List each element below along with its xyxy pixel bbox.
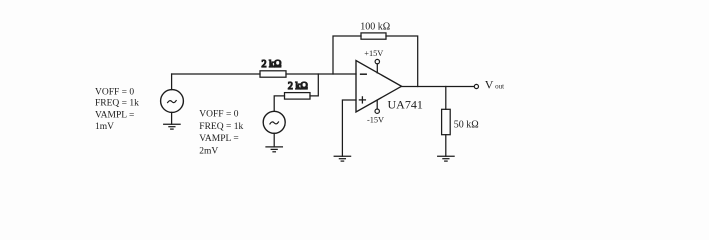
power pin V+ [375,59,379,73]
wire R2 right to junction on inverting input [310,74,318,96]
wire V1 to ground stem [171,112,173,124]
ground below V1 [164,124,180,129]
node Vout terminal [474,84,478,88]
power pin V- [375,100,379,113]
svg-text:+15V: +15V [364,49,383,58]
AC source V1 [161,90,184,113]
wire feedback left [333,36,361,74]
svg-text:V: V [485,78,494,92]
svg-text:2mV: 2mV [199,146,218,156]
op-amp inverting input minus sign [361,73,367,75]
resistor R2 [285,93,311,100]
svg-text:1mV: 1mV [95,122,114,132]
wire non-inverting input to ground [342,100,356,156]
resistor R3 [361,33,386,39]
svg-text:2 kΩ: 2 kΩ [288,81,308,92]
svg-text:100 kΩ: 100 kΩ [360,21,390,32]
svg-text:VAMPL =: VAMPL = [95,111,134,121]
wire R4 to ground stem [445,135,447,157]
ground below R4 [438,156,454,161]
svg-text:-15V: -15V [367,116,384,125]
wire op-amp output to Vout [402,86,475,88]
svg-text:VOFF = 0: VOFF = 0 [199,110,238,120]
wire output to R4 [445,87,447,110]
svg-text:FREQ = 1k: FREQ = 1k [95,98,139,108]
svg-text:2 kΩ: 2 kΩ [262,59,282,70]
ground below V2 [266,147,282,152]
AC source V2 [263,111,285,133]
resistor R1 [260,71,286,77]
svg-text:VAMPL =: VAMPL = [199,134,238,144]
svg-text:UA741: UA741 [388,97,423,111]
op-amp non-inverting input plus sign [359,97,365,103]
svg-text:FREQ = 1k: FREQ = 1k [199,122,243,132]
resistor R4 [442,109,451,134]
op-amp U1 triangle [356,61,402,113]
svg-text:VOFF = 0: VOFF = 0 [95,88,134,98]
wire R1 to op-amp inverting input [286,73,356,75]
wire V2 to ground stem [273,133,275,147]
wire feedback right [386,36,418,87]
svg-text:50 kΩ: 50 kΩ [454,119,479,130]
wire V1 to R1 [172,73,260,75]
ground at non-inverting input [334,156,350,161]
svg-text:out: out [495,83,504,91]
wire V1 top stem [171,74,173,90]
wire R2 left to V2 [274,96,284,111]
